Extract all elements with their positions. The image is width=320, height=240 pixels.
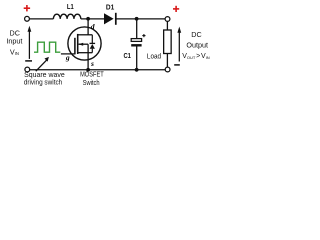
svg-text:s: s bbox=[90, 59, 94, 68]
svg-text:D1: D1 bbox=[106, 4, 114, 11]
label DC Output bbox=[186, 30, 208, 49]
wire output top circle to load bbox=[166, 21, 168, 30]
svg-text:VOUT>VIN: VOUT>VIN bbox=[182, 53, 210, 60]
annotation arrow square wave bbox=[36, 57, 49, 71]
svg-text:d: d bbox=[91, 22, 95, 31]
capacitor C1 plus mark bbox=[142, 34, 145, 37]
MOSFET source lead bbox=[78, 53, 93, 70]
node source junction dot bbox=[86, 68, 90, 72]
svg-text:g: g bbox=[65, 53, 70, 62]
svg-text:Load: Load bbox=[147, 53, 161, 60]
DC input voltage arrow bbox=[28, 26, 32, 59]
output minus bar bbox=[174, 64, 180, 66]
DC output voltage arrow bbox=[177, 27, 181, 62]
svg-text:DC: DC bbox=[191, 30, 201, 39]
label MOSFET Switch bbox=[80, 70, 104, 88]
svg-text:MOSFET: MOSFET bbox=[80, 70, 104, 79]
svg-text:L1: L1 bbox=[67, 4, 74, 11]
wire capacitor top lead bbox=[136, 19, 138, 39]
wire bottom rail bbox=[30, 69, 166, 71]
load resistor box bbox=[164, 30, 172, 54]
MOSFET channel bar bbox=[77, 34, 79, 54]
label Square wave driving switch bbox=[24, 70, 65, 86]
red plus output polarity bbox=[173, 6, 179, 12]
diode D1 bbox=[104, 13, 116, 25]
red plus input polarity bbox=[24, 5, 30, 11]
input terminal top circle bbox=[25, 16, 30, 21]
svg-text:Switch: Switch bbox=[83, 78, 100, 87]
MOSFET Q1 circle body bbox=[68, 27, 101, 60]
node capacitor bottom junction dot bbox=[135, 68, 139, 72]
svg-text:C1: C1 bbox=[123, 53, 131, 60]
MOSFET gate bar bbox=[74, 38, 76, 55]
svg-text:Input: Input bbox=[6, 37, 22, 46]
output terminal bottom circle bbox=[165, 67, 170, 72]
wire capacitor bottom lead bbox=[136, 47, 138, 70]
capacitor C1 negative plate bbox=[131, 44, 141, 46]
input terminal bottom circle bbox=[25, 67, 30, 72]
svg-text:driving switch: driving switch bbox=[24, 77, 63, 86]
input minus bar bbox=[25, 60, 32, 62]
wire inductor to drain junction to diode bbox=[81, 18, 104, 20]
label DC Input bbox=[6, 29, 22, 46]
MOSFET gate wire bbox=[61, 53, 75, 55]
node capacitor top junction dot bbox=[135, 17, 139, 21]
wire diode to cap junction to output bbox=[116, 18, 165, 20]
MOSFET body arrow bbox=[78, 43, 88, 53]
node drain junction dot bbox=[86, 17, 90, 21]
inductor L1 bbox=[53, 14, 80, 19]
MOSFET drain lead bbox=[78, 19, 93, 35]
square wave drive signal bbox=[34, 42, 60, 52]
capacitor C1 positive plate bbox=[131, 39, 141, 42]
MOSFET body diode bbox=[90, 35, 96, 53]
wire top rail left (input to inductor) bbox=[30, 18, 54, 20]
svg-text:Output: Output bbox=[186, 40, 208, 49]
wire load to output bottom circle bbox=[166, 54, 168, 68]
output terminal top circle bbox=[165, 17, 170, 22]
